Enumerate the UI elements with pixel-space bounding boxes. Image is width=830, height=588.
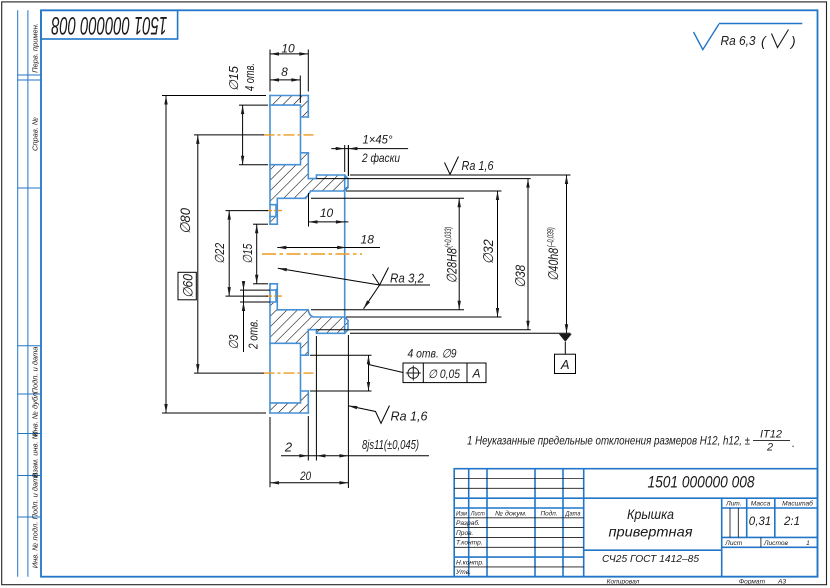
svg-text:2:1: 2:1 (783, 516, 800, 528)
svg-text:А3: А3 (777, 578, 786, 585)
svg-text:СЧ25 ГОСТ 1412–85: СЧ25 ГОСТ 1412–85 (602, 553, 699, 565)
svg-text:1: 1 (806, 540, 810, 547)
svg-text:Подп.: Подп. (541, 509, 558, 517)
svg-text:IT12: IT12 (760, 429, 782, 441)
svg-text:Формат: Формат (739, 578, 766, 585)
svg-text:Пров.: Пров. (456, 530, 474, 537)
svg-text:Копировал: Копировал (607, 578, 640, 585)
svg-text:Ra 3,2: Ra 3,2 (390, 272, 424, 286)
svg-text:∅28H8: ∅28H8 (444, 248, 460, 283)
svg-text:Масштаб: Масштаб (782, 500, 813, 508)
svg-text:Ra 1,6: Ra 1,6 (462, 159, 494, 173)
svg-text:1501 000000 008: 1501 000000 008 (51, 11, 167, 39)
svg-text:2: 2 (766, 442, 773, 454)
svg-text:Листов: Листов (763, 540, 789, 547)
svg-text:∅80: ∅80 (177, 208, 193, 234)
svg-text:привертная: привертная (609, 524, 694, 540)
svg-text:2: 2 (284, 440, 293, 455)
svg-text:(+0,033): (+0,033) (443, 227, 453, 248)
svg-text:1 Неуказанные предельные откло: 1 Неуказанные предельные отклонения разм… (467, 434, 750, 448)
svg-text:Изм: Изм (456, 510, 467, 517)
svg-text:10: 10 (320, 206, 334, 220)
svg-text:Лист: Лист (470, 510, 485, 517)
svg-text:18: 18 (361, 233, 375, 247)
svg-text:Утв.: Утв. (455, 569, 471, 576)
svg-text:Подп. и дата: Подп. и дата (31, 347, 40, 394)
svg-text:Дата: Дата (565, 510, 581, 517)
svg-text:∅3: ∅3 (226, 334, 241, 350)
svg-text:∅38: ∅38 (512, 265, 528, 288)
svg-text:∅60: ∅60 (181, 274, 196, 298)
svg-text:Инв. № подл.: Инв. № подл. (31, 522, 40, 569)
svg-text:∅22: ∅22 (212, 242, 227, 264)
svg-text:Крышка: Крышка (627, 506, 674, 522)
svg-text:∅15: ∅15 (240, 243, 255, 264)
svg-text:А: А (471, 366, 480, 380)
svg-text:∅32: ∅32 (480, 239, 496, 264)
svg-text:4 отв. ∅9: 4 отв. ∅9 (408, 346, 457, 360)
svg-text:∅40h8: ∅40h8 (545, 248, 561, 281)
svg-text:(–0,039): (–0,039) (546, 227, 556, 247)
svg-text:0,31: 0,31 (749, 516, 771, 528)
svg-text:Перв. примен.: Перв. примен. (31, 23, 40, 73)
svg-text:Взам. инв. №: Взам. инв. № (31, 431, 40, 477)
svg-text:№ докум.: № докум. (495, 509, 527, 517)
svg-text:1×45°: 1×45° (363, 133, 393, 147)
svg-text:4 отв.: 4 отв. (243, 63, 257, 91)
svg-text:Н.контр.: Н.контр. (456, 559, 484, 566)
svg-text:1501 000000 008: 1501 000000 008 (648, 474, 756, 492)
svg-text:Подп. и дата: Подп. и дата (31, 473, 40, 520)
svg-text:2 фаски: 2 фаски (361, 151, 400, 165)
svg-text:Инв. № дубл.: Инв. № дубл. (31, 391, 40, 437)
svg-text:Масса: Масса (751, 501, 771, 508)
svg-text:.: . (792, 438, 795, 450)
svg-text:Т.контр.: Т.контр. (456, 540, 483, 547)
svg-text:8: 8 (281, 65, 288, 79)
svg-text:8js11(±0,045): 8js11(±0,045) (362, 438, 419, 452)
svg-text:∅15: ∅15 (227, 66, 241, 91)
svg-text:Разраб.: Разраб. (456, 519, 480, 527)
svg-text:Лист: Лист (724, 540, 742, 547)
svg-text:Ra 1,6: Ra 1,6 (391, 409, 428, 423)
svg-text:Справ. №: Справ. № (31, 117, 40, 151)
svg-text:10: 10 (281, 41, 295, 55)
svg-text:Ra 6,3: Ra 6,3 (721, 33, 757, 48)
svg-text:А: А (560, 357, 570, 372)
svg-text:∅ 0,05: ∅ 0,05 (428, 367, 460, 381)
svg-text:20: 20 (299, 469, 311, 483)
svg-text:2 отв.: 2 отв. (247, 319, 261, 350)
svg-text:Лит.: Лит. (725, 501, 742, 508)
